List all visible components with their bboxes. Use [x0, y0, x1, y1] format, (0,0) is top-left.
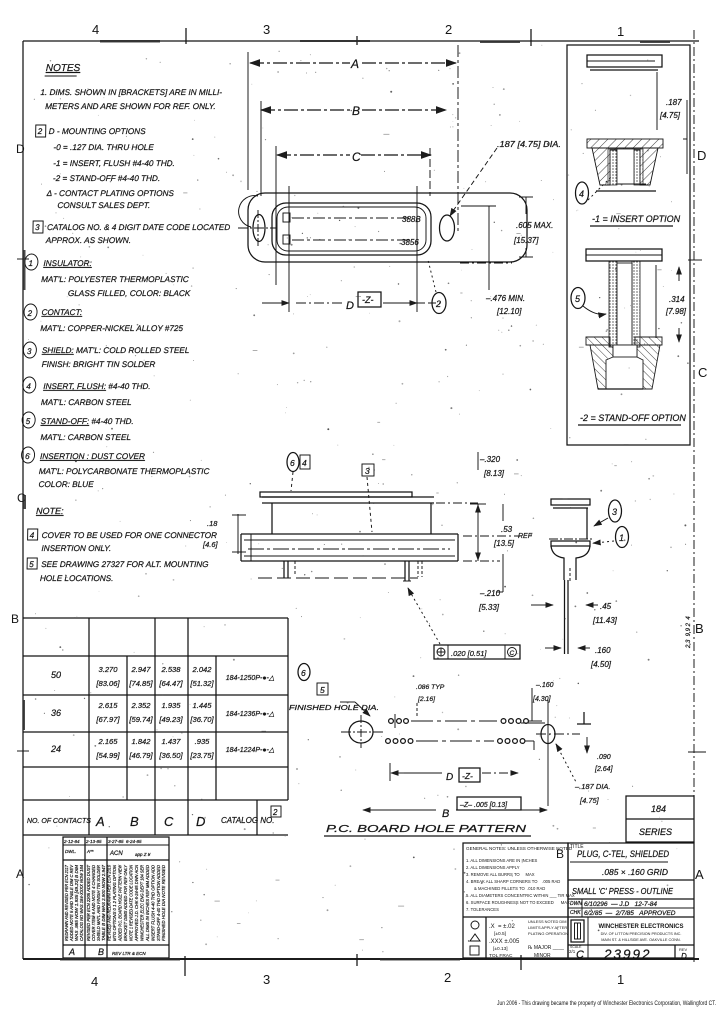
svg-text:DWL.: DWL. — [65, 849, 76, 854]
contact detail: top cap — [551, 499, 590, 508]
svg-text:[83.06]: [83.06] — [95, 679, 120, 688]
svg-text:23992: 23992 — [603, 947, 652, 962]
svg-text:D: D — [446, 772, 453, 783]
svg-text:184: 184 — [651, 804, 666, 814]
stand-off .314 dim — [665, 267, 687, 342]
svg-text:3: 3 — [263, 22, 270, 37]
svg-text:[5.33]: [5.33] — [478, 603, 500, 612]
svg-text:.020 [0.51]: .020 [0.51] — [451, 649, 487, 658]
svg-text:5: 5 — [320, 685, 325, 695]
svg-text:TOL FRAC ___: TOL FRAC ___ — [489, 953, 522, 959]
svg-text:.XXX ±.005: .XXX ±.005 — [489, 939, 520, 945]
svg-text:2: 2 — [445, 22, 452, 37]
.476 MIN dimension — [461, 206, 525, 316]
svg-text:ADDED P.C. BOARD HOLE PATTERN: ADDED P.C. BOARD HOLE PATTERN VIEW — [118, 864, 123, 941]
svg-text:-1 = INSERT OPTION: -1 = INSERT OPTION — [592, 214, 681, 224]
svg-text:NOTES: NOTES — [46, 63, 81, 74]
side view: main body — [241, 534, 520, 561]
svg-text:WINCHESTER ELEC ENG DEPT 184 S: WINCHESTER ELEC ENG DEPT 184 SER — [140, 864, 145, 941]
svg-text:A: A — [95, 814, 105, 829]
svg-text:[4.75]: [4.75] — [579, 796, 600, 805]
hole row 1 — [389, 714, 542, 728]
stand-off option: pcb plate — [586, 249, 662, 261]
svg-text:50: 50 — [51, 670, 61, 680]
svg-text:B: B — [556, 847, 564, 861]
svg-text:3.270: 3.270 — [98, 665, 118, 674]
stand-off extension line — [655, 265, 657, 338]
svg-text:D: D — [681, 952, 687, 961]
svg-text:CHK: CHK — [570, 910, 581, 916]
svg-text:[±0.13]: [±0.13] — [493, 946, 508, 952]
svg-text:MINOR ____: MINOR ____ — [534, 953, 563, 959]
184 SERIES box — [626, 796, 694, 842]
svg-text:.935: .935 — [195, 737, 211, 746]
svg-text:NOTE 1 REVISED DATE CODE LOCAT: NOTE 1 REVISED DATE CODE LOCATION — [129, 864, 134, 941]
svg-text:2,3 9,9 2 4: 2,3 9,9 2 4 — [686, 616, 692, 649]
svg-text:[36.50]: [36.50] — [158, 751, 183, 760]
svg-text:6: 6 — [25, 452, 30, 461]
svg-text:ALL DIMS IN INCHES REF MM ADDE: ALL DIMS IN INCHES REF MM ADDED — [145, 864, 150, 942]
svg-text:[74.85]: [74.85] — [128, 679, 153, 688]
svg-text:B: B — [130, 814, 139, 829]
svg-text:C: C — [698, 365, 707, 380]
revision block — [63, 837, 169, 958]
dim .160 [4.50] — [545, 646, 612, 669]
svg-text:[51.32]: [51.32] — [189, 679, 214, 688]
P.C. BOARD HOLE PATTERN title — [324, 823, 531, 836]
notes column — [19, 63, 233, 583]
svg-text:2: 2 — [272, 808, 278, 817]
svg-text:[13.5]: [13.5] — [493, 539, 515, 548]
svg-text:METERS AND ARE SHOWN FOR REF.: METERS AND ARE SHOWN FOR REF. ONLY. — [45, 102, 216, 111]
svg-text:INSERTION : DUST COVER: INSERTION : DUST COVER — [40, 452, 145, 461]
balloon 1 (insulator) — [593, 527, 629, 548]
insulator rounded body — [272, 203, 431, 255]
svg-text:B: B — [98, 947, 104, 957]
svg-text:[2.16]: [2.16] — [417, 696, 436, 703]
svg-text:24: 24 — [50, 744, 61, 754]
svg-text:D: D — [346, 300, 354, 312]
finished hole symbol — [341, 715, 383, 748]
svg-text:1.842: 1.842 — [131, 737, 151, 746]
svg-text:COLOR: BLUE: COLOR: BLUE — [38, 480, 94, 489]
svg-text:P.C. BOARD HOLE PATTERN: P.C. BOARD HOLE PATTERN — [326, 823, 527, 835]
svg-text:D: D — [16, 142, 25, 156]
balloon 2 — [428, 260, 446, 314]
svg-text:CATALOG NO.: CATALOG NO. — [221, 816, 275, 825]
svg-text:[12.10]: [12.10] — [496, 307, 522, 316]
svg-text:.085 × .160 GRID: .085 × .160 GRID — [602, 867, 668, 877]
table row 50 — [51, 665, 275, 688]
dim .210 [5.33] chain — [478, 504, 503, 612]
svg-text:.53: .53 — [501, 525, 513, 534]
dim B (hole pattern) — [363, 808, 547, 820]
dim .45 [11.43] — [531, 602, 618, 625]
svg-text:[49.23]: [49.23] — [158, 715, 183, 724]
svg-text:B: B — [442, 808, 449, 820]
svg-text:A**: A** — [86, 849, 94, 854]
extension lines — [247, 52, 249, 190]
svg-text:C: C — [576, 949, 584, 961]
svg-text:[4.50]: [4.50] — [590, 660, 612, 669]
contact detail: pin — [565, 580, 569, 654]
detail views box — [567, 45, 690, 445]
svg-text:[4.30]: [4.30] — [532, 696, 552, 703]
svg-text:–.320: –.320 — [479, 455, 501, 464]
svg-text:℞ MAJOR ____: ℞ MAJOR ____ — [528, 945, 564, 951]
svg-text:4: 4 — [30, 531, 35, 540]
svg-text:.187 [4.75] DIA.: .187 [4.75] DIA. — [497, 140, 561, 149]
svg-text:1. ALL DIMENSIONS ARE IN INCH: 1. ALL DIMENSIONS ARE IN INCHES — [466, 858, 537, 863]
dim D -Z- (hole pattern) — [390, 763, 518, 783]
table header row — [27, 806, 281, 829]
svg-text:A: A — [68, 947, 75, 957]
svg-text:REF: REF — [518, 533, 533, 540]
svg-text:WINCHESTER ELECTRONICS: WINCHESTER ELECTRONICS — [598, 924, 683, 930]
dimension D -Z- under view — [262, 292, 440, 312]
svg-text:C: C — [510, 650, 515, 657]
zone numbers bottom — [91, 970, 624, 989]
svg-text:4. BREAK ALL SHARP CORNERS TO: 4. BREAK ALL SHARP CORNERS TO .005 RAD — [466, 879, 560, 884]
contact row 2 — [283, 235, 290, 244]
svg-text:CONSULT SALES DEPT.: CONSULT SALES DEPT. — [57, 201, 150, 210]
svg-text:2: 2 — [444, 970, 451, 985]
svg-text:PLUG, C-TEL, SHIELDED: PLUG, C-TEL, SHIELDED — [577, 849, 669, 860]
svg-text:[4.6]: [4.6] — [202, 540, 219, 549]
svg-text:CATALOG NO WAS 184-XXXX NOW 18: CATALOG NO WAS 184-XXXX NOW 184 — [79, 865, 84, 941]
top view: dimension C — [277, 150, 431, 164]
svg-text:C: C — [164, 814, 174, 829]
side view: left pins — [281, 561, 295, 578]
svg-text:1.935: 1.935 — [161, 701, 181, 710]
svg-text:388B: 388B — [402, 215, 421, 224]
stand-off column — [609, 261, 640, 347]
svg-text:[46.79]: [46.79] — [128, 751, 153, 760]
svg-text:-Z-: -Z- — [462, 771, 473, 781]
svg-text:.X = ±.02: .X = ±.02 — [489, 924, 515, 930]
svg-text:2-12-84: 2-12-84 — [63, 839, 80, 844]
svg-text:-1 = INSERT, FLUSH #4-40 THD.: -1 = INSERT, FLUSH #4-40 THD. — [53, 159, 175, 168]
svg-text:INSERT, FLUSH: #4-40 THD.: INSERT, FLUSH: #4-40 THD. — [43, 382, 151, 391]
svg-text:-2 = STAND-OFF OPTION: -2 = STAND-OFF OPTION — [580, 413, 686, 423]
svg-text:CONTACT:: CONTACT: — [41, 308, 82, 317]
svg-text:INSERTION ONLY.: INSERTION ONLY. — [41, 544, 111, 553]
svg-text:-0 = .127 DIA. THRU HOLE: -0 = .127 DIA. THRU HOLE — [53, 143, 154, 152]
.086 TYP callout — [416, 684, 445, 717]
svg-text:STAND-OFF: #4-40 THD.: STAND-OFF: #4-40 THD. — [41, 417, 134, 426]
balloon 4 (insert) — [576, 176, 613, 204]
dim .320 [8.13] — [478, 452, 505, 478]
svg-text:1: 1 — [617, 24, 624, 39]
svg-text:2.042: 2.042 — [191, 665, 212, 674]
balloon 5 (stand-off) — [571, 288, 606, 315]
title block — [568, 843, 694, 962]
D dim extension verticals — [288, 186, 290, 312]
svg-text:REVISED AND REDRAWN PER ECN 23: REVISED AND REDRAWN PER ECN 2310 — [107, 865, 112, 941]
revision scribble text (rotated) — [64, 864, 166, 942]
side view: note box 3 leader — [362, 464, 374, 532]
svg-text:INSERT FLUSH 4-40 THD OPTION A: INSERT FLUSH 4-40 THD OPTION ADD — [151, 864, 156, 941]
svg-text:[7.98]: [7.98] — [665, 307, 687, 316]
svg-text:DWN: DWN — [570, 901, 582, 907]
svg-text:Δ - CONTACT PLATING OPTIONS: Δ - CONTACT PLATING OPTIONS — [46, 189, 175, 198]
side view: balloon 6 + note box 4 — [287, 453, 310, 492]
svg-text:[11.43]: [11.43] — [592, 616, 618, 625]
svg-text:1: 1 — [28, 259, 33, 268]
contact row 1 — [283, 213, 290, 222]
revision block letters row — [68, 947, 146, 957]
svg-text:–Z– .005 [0.13]: –Z– .005 [0.13] — [459, 802, 508, 809]
svg-text:.090: .090 — [597, 754, 611, 761]
insert option label — [590, 214, 681, 226]
hole pattern: balloon 6 + note 5 — [298, 664, 328, 696]
hole row 2 — [386, 739, 534, 750]
finished hole dia label — [289, 702, 379, 716]
table row 36 — [51, 701, 275, 724]
svg-text:–.187 DIA.: –.187 DIA. — [574, 782, 610, 791]
svg-text:184-1236P-●-△: 184-1236P-●-△ — [226, 711, 275, 718]
right mounting slot — [440, 215, 455, 241]
insert option: pcb plate — [587, 55, 662, 70]
stand-off hatched shield section — [586, 337, 662, 389]
svg-text:2: 2 — [435, 299, 441, 309]
svg-text:[±0.5]: [±0.5] — [494, 931, 506, 937]
svg-text:.314: .314 — [669, 295, 685, 304]
svg-text:MAT'L: CARBON STEEL: MAT'L: CARBON STEEL — [41, 398, 132, 407]
svg-text:CATALOG NO. & 4 DIGIT DATE COD: CATALOG NO. & 4 DIGIT DATE CODE LOCATED — [47, 223, 230, 232]
general notes box — [463, 843, 575, 959]
top view: dimension B — [261, 104, 446, 118]
insert option: hatched shield section — [587, 139, 663, 191]
svg-text:[64.47]: [64.47] — [158, 679, 183, 688]
svg-text:FINISH: BRIGHT TIN SOLDER: FINISH: BRIGHT TIN SOLDER — [42, 360, 156, 369]
svg-text:-Z-: -Z- — [362, 295, 374, 305]
dimensions table — [23, 618, 288, 835]
svg-text:COVER TO BE USED FOR ONE CONNE: COVER TO BE USED FOR ONE CONNECTOR — [42, 531, 218, 540]
svg-text:1: 1 — [617, 972, 624, 987]
svg-text:7. TOLERANCES: 7. TOLERANCES — [466, 907, 499, 912]
svg-text:.187: .187 — [666, 98, 682, 107]
svg-text:4: 4 — [91, 974, 98, 989]
top view: dimension A — [250, 57, 456, 71]
svg-text:C: C — [352, 150, 361, 164]
insert option: .187 dim — [659, 98, 687, 174]
perpendicular symbol — [577, 712, 591, 724]
svg-text:HOLE LOCATIONS.: HOLE LOCATIONS. — [40, 574, 114, 583]
svg-text:1.445: 1.445 — [192, 701, 212, 710]
svg-text:3. REMOVE ALL BURRS TO MAX: 3. REMOVE ALL BURRS TO MAX — [466, 872, 535, 877]
svg-text:4: 4 — [579, 189, 584, 199]
svg-text:UNLESS NOTED DIM: UNLESS NOTED DIM — [528, 919, 566, 924]
side view: cover plate — [260, 492, 478, 534]
contact detail: stem — [564, 565, 576, 582]
svg-text:2: 2 — [37, 127, 43, 136]
svg-text:MTG OPTIONS 0 1 2 PLATING OPTI: MTG OPTIONS 0 1 2 PLATING OPTION — [112, 864, 117, 941]
svg-text:[36.70]: [36.70] — [189, 715, 214, 724]
svg-text:3-27-85 6-24-85: 3-27-85 6-24-85 — [108, 839, 142, 844]
svg-text:5: 5 — [26, 417, 31, 426]
svg-text:MAT'L: COPPER-NICKEL ALLOY #72: MAT'L: COPPER-NICKEL ALLOY #725 — [40, 324, 183, 333]
svg-text:184-1224P-●-△: 184-1224P-●-△ — [226, 747, 275, 754]
.160 [4.30] callout — [521, 682, 554, 723]
contact detail: shaft between caps — [586, 508, 588, 539]
svg-text:6: 6 — [301, 668, 306, 678]
svg-text:6/10296 — J.D 12-7-84: 6/10296 — J.D 12-7-84 — [584, 901, 657, 908]
svg-text:.18: .18 — [207, 519, 218, 528]
svg-text:2-13-85: 2-13-85 — [85, 839, 102, 844]
svg-text:6/2/85 — 2/7/85 APPROVED: 6/2/85 — 2/7/85 APPROVED — [584, 910, 676, 917]
svg-text:APPROX. AS SHOWN.: APPROX. AS SHOWN. — [45, 236, 131, 245]
.187 DIA callout — [450, 140, 561, 216]
svg-text:2.538: 2.538 — [160, 665, 181, 674]
svg-text:SHIELD: MAT'L: COLD ROLLED ST: SHIELD: MAT'L: COLD ROLLED STEEL — [42, 346, 190, 355]
svg-text:3: 3 — [27, 347, 32, 356]
svg-text:6. SURFACE ROUGHNESS NOT TO EX: 6. SURFACE ROUGHNESS NOT TO EXCEED MAX — [466, 900, 570, 905]
svg-text:& MACHINED FILLETS TO .010 RA: & MACHINED FILLETS TO .010 RAD — [474, 886, 545, 891]
svg-text:[4.75]: [4.75] — [659, 111, 681, 120]
svg-text:2/1: 2/1 — [569, 949, 576, 954]
true position frame — [408, 588, 520, 659]
side view: right pins — [403, 561, 422, 581]
svg-text:INSULATOR:: INSULATOR: — [43, 259, 92, 268]
svg-text:[59.74]: [59.74] — [128, 715, 153, 724]
svg-text:6: 6 — [290, 458, 295, 468]
svg-text:3: 3 — [35, 223, 40, 232]
svg-text:[15.37]: [15.37] — [513, 236, 539, 245]
.187 DIA mounting hole callout — [556, 744, 610, 805]
svg-text:[8.13]: [8.13] — [483, 469, 505, 478]
svg-text:5. ALL DIAMETERS CONCENTRIC WI: 5. ALL DIAMETERS CONCENTRIC WITHIN ___ T… — [466, 893, 575, 898]
dim .53 [13.5] REF — [470, 504, 533, 561]
svg-text:B: B — [695, 621, 704, 636]
insert option: extension line — [656, 72, 658, 130]
side view: board dashed line — [258, 577, 418, 579]
zone letters left (clipped by scan) — [11, 142, 26, 881]
svg-text:–.160: –.160 — [535, 682, 554, 689]
svg-text:–.476 MIN.: –.476 MIN. — [485, 294, 525, 303]
stand-off option label — [578, 413, 686, 425]
svg-text:.45: .45 — [600, 602, 612, 611]
zone numbers top — [92, 22, 624, 39]
svg-text:NOTE:: NOTE: — [36, 506, 64, 516]
svg-text:ACN: ACN — [109, 851, 123, 857]
svg-text:FINISHED HOLE DIA.: FINISHED HOLE DIA. — [289, 703, 379, 712]
svg-text:FINISHED HOLE DIA NOTE REVISED: FINISHED HOLE DIA NOTE REVISED — [161, 864, 166, 941]
svg-text:2.615: 2.615 — [97, 701, 118, 710]
connector top view: outer shield — [239, 193, 527, 262]
.090 dim arrow — [587, 737, 614, 773]
svg-text:NO. OF CONTACTS: NO. OF CONTACTS — [27, 818, 91, 825]
svg-text:1.437: 1.437 — [161, 737, 181, 746]
svg-text:3: 3 — [263, 972, 270, 987]
contact detail: lower cap and skirt — [549, 539, 592, 565]
svg-text:Jun 2006 - This drawing became: Jun 2006 - This drawing became the prope… — [497, 1000, 716, 1007]
svg-text:A: A — [16, 867, 24, 881]
svg-text:4: 4 — [92, 22, 99, 37]
svg-text:[67.97]: [67.97] — [95, 715, 120, 724]
svg-text:B: B — [11, 612, 19, 626]
svg-text:MAT'L: POLYCARBONATE THERMOPLA: MAT'L: POLYCARBONATE THERMOPLASTIC — [39, 467, 210, 476]
svg-text:.086 TYP: .086 TYP — [416, 684, 445, 691]
svg-text:app Z ¥: app Z ¥ — [135, 852, 151, 857]
svg-text:GLASS FILLED, COLOR: BLACK: GLASS FILLED, COLOR: BLACK — [68, 289, 191, 298]
dim .18 [4.6] left — [202, 514, 246, 554]
table row 24 — [50, 737, 275, 760]
svg-text:B: B — [352, 104, 360, 118]
svg-text:4: 4 — [302, 458, 307, 468]
zone letters right — [695, 148, 707, 882]
svg-text:D: D — [697, 148, 706, 163]
svg-text:184-1250P-●-△: 184-1250P-●-△ — [226, 675, 275, 682]
datum frame -Z- .005 — [457, 797, 521, 810]
svg-text:PLATING OPERATION: PLATING OPERATION — [528, 931, 568, 936]
svg-text:1. DIMS. SHOWN IN [BRACKETS] A: 1. DIMS. SHOWN IN [BRACKETS] ARE IN MILL… — [40, 88, 222, 97]
svg-text:SMALL 'C' PRESS - OUTLINE: SMALL 'C' PRESS - OUTLINE — [572, 887, 673, 896]
svg-text:DIV. OF LITTON PRECISION PRODU: DIV. OF LITTON PRECISION PRODUCTS INC. — [601, 932, 682, 936]
centerline left ear — [238, 227, 276, 229]
svg-text:3: 3 — [612, 507, 617, 517]
svg-text:2: 2 — [26, 309, 32, 318]
svg-text:A: A — [695, 867, 704, 882]
svg-text:.605 MAX.: .605 MAX. — [516, 221, 553, 230]
svg-text:4: 4 — [26, 382, 31, 391]
svg-text:2.165: 2.165 — [97, 737, 118, 746]
svg-text:36: 36 — [51, 708, 61, 718]
svg-text:–.210: –.210 — [479, 589, 501, 598]
svg-text:TABLE B DIM WAS 2.900 NOW 2.94: TABLE B DIM WAS 2.900 NOW 2.947 — [101, 865, 106, 941]
svg-text:D - MOUNTING OPTIONS: D - MOUNTING OPTIONS — [49, 127, 147, 136]
mounting hole right — [536, 700, 580, 806]
svg-text:SERIES: SERIES — [639, 827, 672, 837]
.605 MAX dimension — [460, 197, 553, 263]
svg-text:2. ALL DIMENSIONS APPLY: 2. ALL DIMENSIONS APPLY — [466, 865, 520, 870]
svg-text:[2.64]: [2.64] — [594, 766, 614, 773]
left mounting slot — [253, 215, 265, 242]
svg-text:-2 = STAND-OFF #4-40 THD.: -2 = STAND-OFF #4-40 THD. — [53, 174, 160, 183]
svg-text:SEE DRAWING 27327 FOR ALT. MOU: SEE DRAWING 27327 FOR ALT. MOUNTING — [41, 560, 209, 569]
svg-text:REV LTR & ECN: REV LTR & ECN — [112, 951, 146, 956]
svg-text:[54.99]: [54.99] — [95, 751, 120, 760]
svg-text:MAT'L: POLYESTER THERMOPLASTIC: MAT'L: POLYESTER THERMOPLASTIC — [41, 275, 189, 284]
svg-text:5: 5 — [29, 560, 34, 569]
svg-text:A: A — [350, 57, 359, 71]
svg-text:1: 1 — [619, 533, 624, 543]
svg-text:2.947: 2.947 — [130, 665, 151, 674]
svg-text:.160: .160 — [595, 646, 611, 655]
svg-text:D: D — [196, 814, 205, 829]
svg-text:2.352: 2.352 — [130, 701, 151, 710]
svg-text:LIMITS APPLY AFTER: LIMITS APPLY AFTER — [528, 925, 567, 930]
balloon 3 (shield) — [594, 500, 622, 526]
svg-text:APPROVED J.D. CHK 6-24-85 DWN: APPROVED J.D. CHK 6-24-85 DWN ACN — [134, 864, 139, 941]
svg-text:[23.75]: [23.75] — [189, 751, 214, 760]
svg-text:MAIN ST. & HILLSIDE AVE. OAKVI: MAIN ST. & HILLSIDE AVE. OAKVILLE CONN. — [601, 938, 680, 942]
